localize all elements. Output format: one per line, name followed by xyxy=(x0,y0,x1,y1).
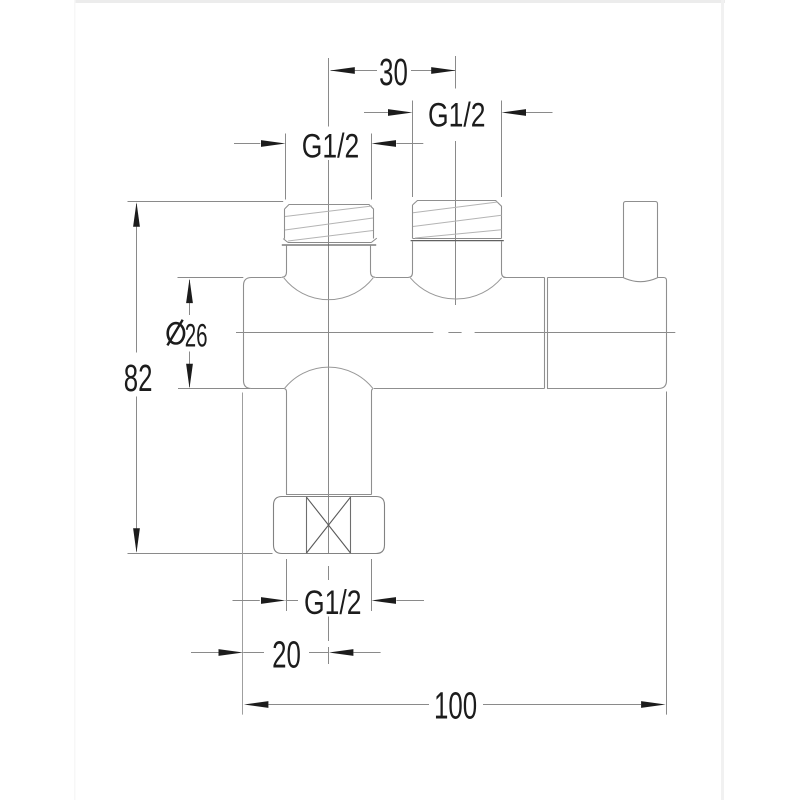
svg-text:20: 20 xyxy=(272,633,301,675)
extension line 82 top xyxy=(128,201,284,203)
arrow 20 right xyxy=(329,649,354,656)
svg-text:G1/2: G1/2 xyxy=(428,96,485,134)
svg-text:G1/2: G1/2 xyxy=(302,127,359,165)
dimension bottom G1/2 line xyxy=(233,600,425,602)
extension line dia26 top xyxy=(178,277,244,279)
dimension dia26 line xyxy=(189,280,191,387)
extension line body right long xyxy=(666,392,668,715)
arrow 20 left xyxy=(219,649,244,656)
arrow left G1/2 left xyxy=(261,140,286,147)
centerline right port xyxy=(455,56,457,305)
body right section outline xyxy=(547,278,667,389)
right port collar line xyxy=(411,240,504,242)
body bottom edge center xyxy=(374,388,545,390)
arrow 82 bottom xyxy=(133,528,140,553)
page left border xyxy=(74,0,76,800)
svg-text:100: 100 xyxy=(434,684,477,726)
arrow 82 top xyxy=(133,202,140,227)
extension line bottom G1/2 left xyxy=(286,559,288,611)
extension line left G1/2 right xyxy=(371,134,373,200)
right port neck xyxy=(409,241,506,277)
svg-text:G1/2: G1/2 xyxy=(304,584,361,622)
extension line dia26 bottom xyxy=(178,388,250,390)
left port neck xyxy=(282,246,376,278)
svg-text:30: 30 xyxy=(379,51,408,93)
right port thread outline xyxy=(413,201,502,239)
boss arc left port xyxy=(284,278,373,300)
dimension 30 line xyxy=(331,70,456,72)
page top border xyxy=(74,0,725,3)
left port thread hatch lines xyxy=(285,206,373,241)
right port thread hatch lines xyxy=(413,202,502,238)
body partition line left xyxy=(544,277,546,388)
dimension right G1/2 line xyxy=(364,112,553,114)
bottom pipe end line xyxy=(286,494,372,496)
bottom pipe sides xyxy=(285,389,373,494)
arrow right G1/2 right xyxy=(502,109,527,116)
extension line right G1/2 right xyxy=(501,101,503,198)
left port thread outline xyxy=(285,205,374,239)
boss arc right port xyxy=(410,278,501,299)
arrow bottom G1/2 left xyxy=(261,597,286,604)
nut hex flat line right xyxy=(350,497,352,553)
left port collar line xyxy=(282,244,376,246)
nut outline xyxy=(274,497,385,554)
dimension 100 line xyxy=(268,704,641,706)
extension line right G1/2 left xyxy=(412,101,414,198)
nut hex flat line left xyxy=(306,497,308,553)
arrow 100 right xyxy=(641,701,666,708)
arrow dia26 top xyxy=(186,279,193,304)
nut cross X xyxy=(307,497,351,553)
arrow 30 right xyxy=(431,67,456,74)
body partition line right xyxy=(547,277,549,388)
boss arc bottom pipe dome xyxy=(285,367,373,388)
page right border xyxy=(721,0,724,800)
dimension 20 line xyxy=(191,652,381,654)
arrow right G1/2 left xyxy=(388,109,413,116)
arrow 100 left xyxy=(244,701,269,708)
extension line bottom G1/2 right xyxy=(371,559,373,611)
arrow 30 left xyxy=(330,67,355,74)
right port thread bottom xyxy=(413,238,502,240)
extension line body left long xyxy=(242,393,244,715)
arrow bottom G1/2 right xyxy=(372,597,397,604)
extension line left G1/2 left xyxy=(285,134,287,200)
dimension left G1/2 line xyxy=(234,143,423,145)
centerline body axis horizontal xyxy=(236,332,675,334)
extension line 82 bottom xyxy=(128,553,273,555)
body top edge between ports xyxy=(376,277,409,279)
dimension 82 line xyxy=(136,204,138,552)
stem outline xyxy=(624,202,658,282)
left port thread bottom xyxy=(283,238,377,242)
svg-text:26: 26 xyxy=(185,318,208,354)
arrow dia26 bottom xyxy=(186,364,193,389)
svg-text:82: 82 xyxy=(124,357,153,399)
body left section outline xyxy=(244,278,285,389)
centerline left port / pipe axis xyxy=(328,58,330,664)
body top edge right of right port xyxy=(504,277,545,279)
arrow left G1/2 right xyxy=(372,140,397,147)
